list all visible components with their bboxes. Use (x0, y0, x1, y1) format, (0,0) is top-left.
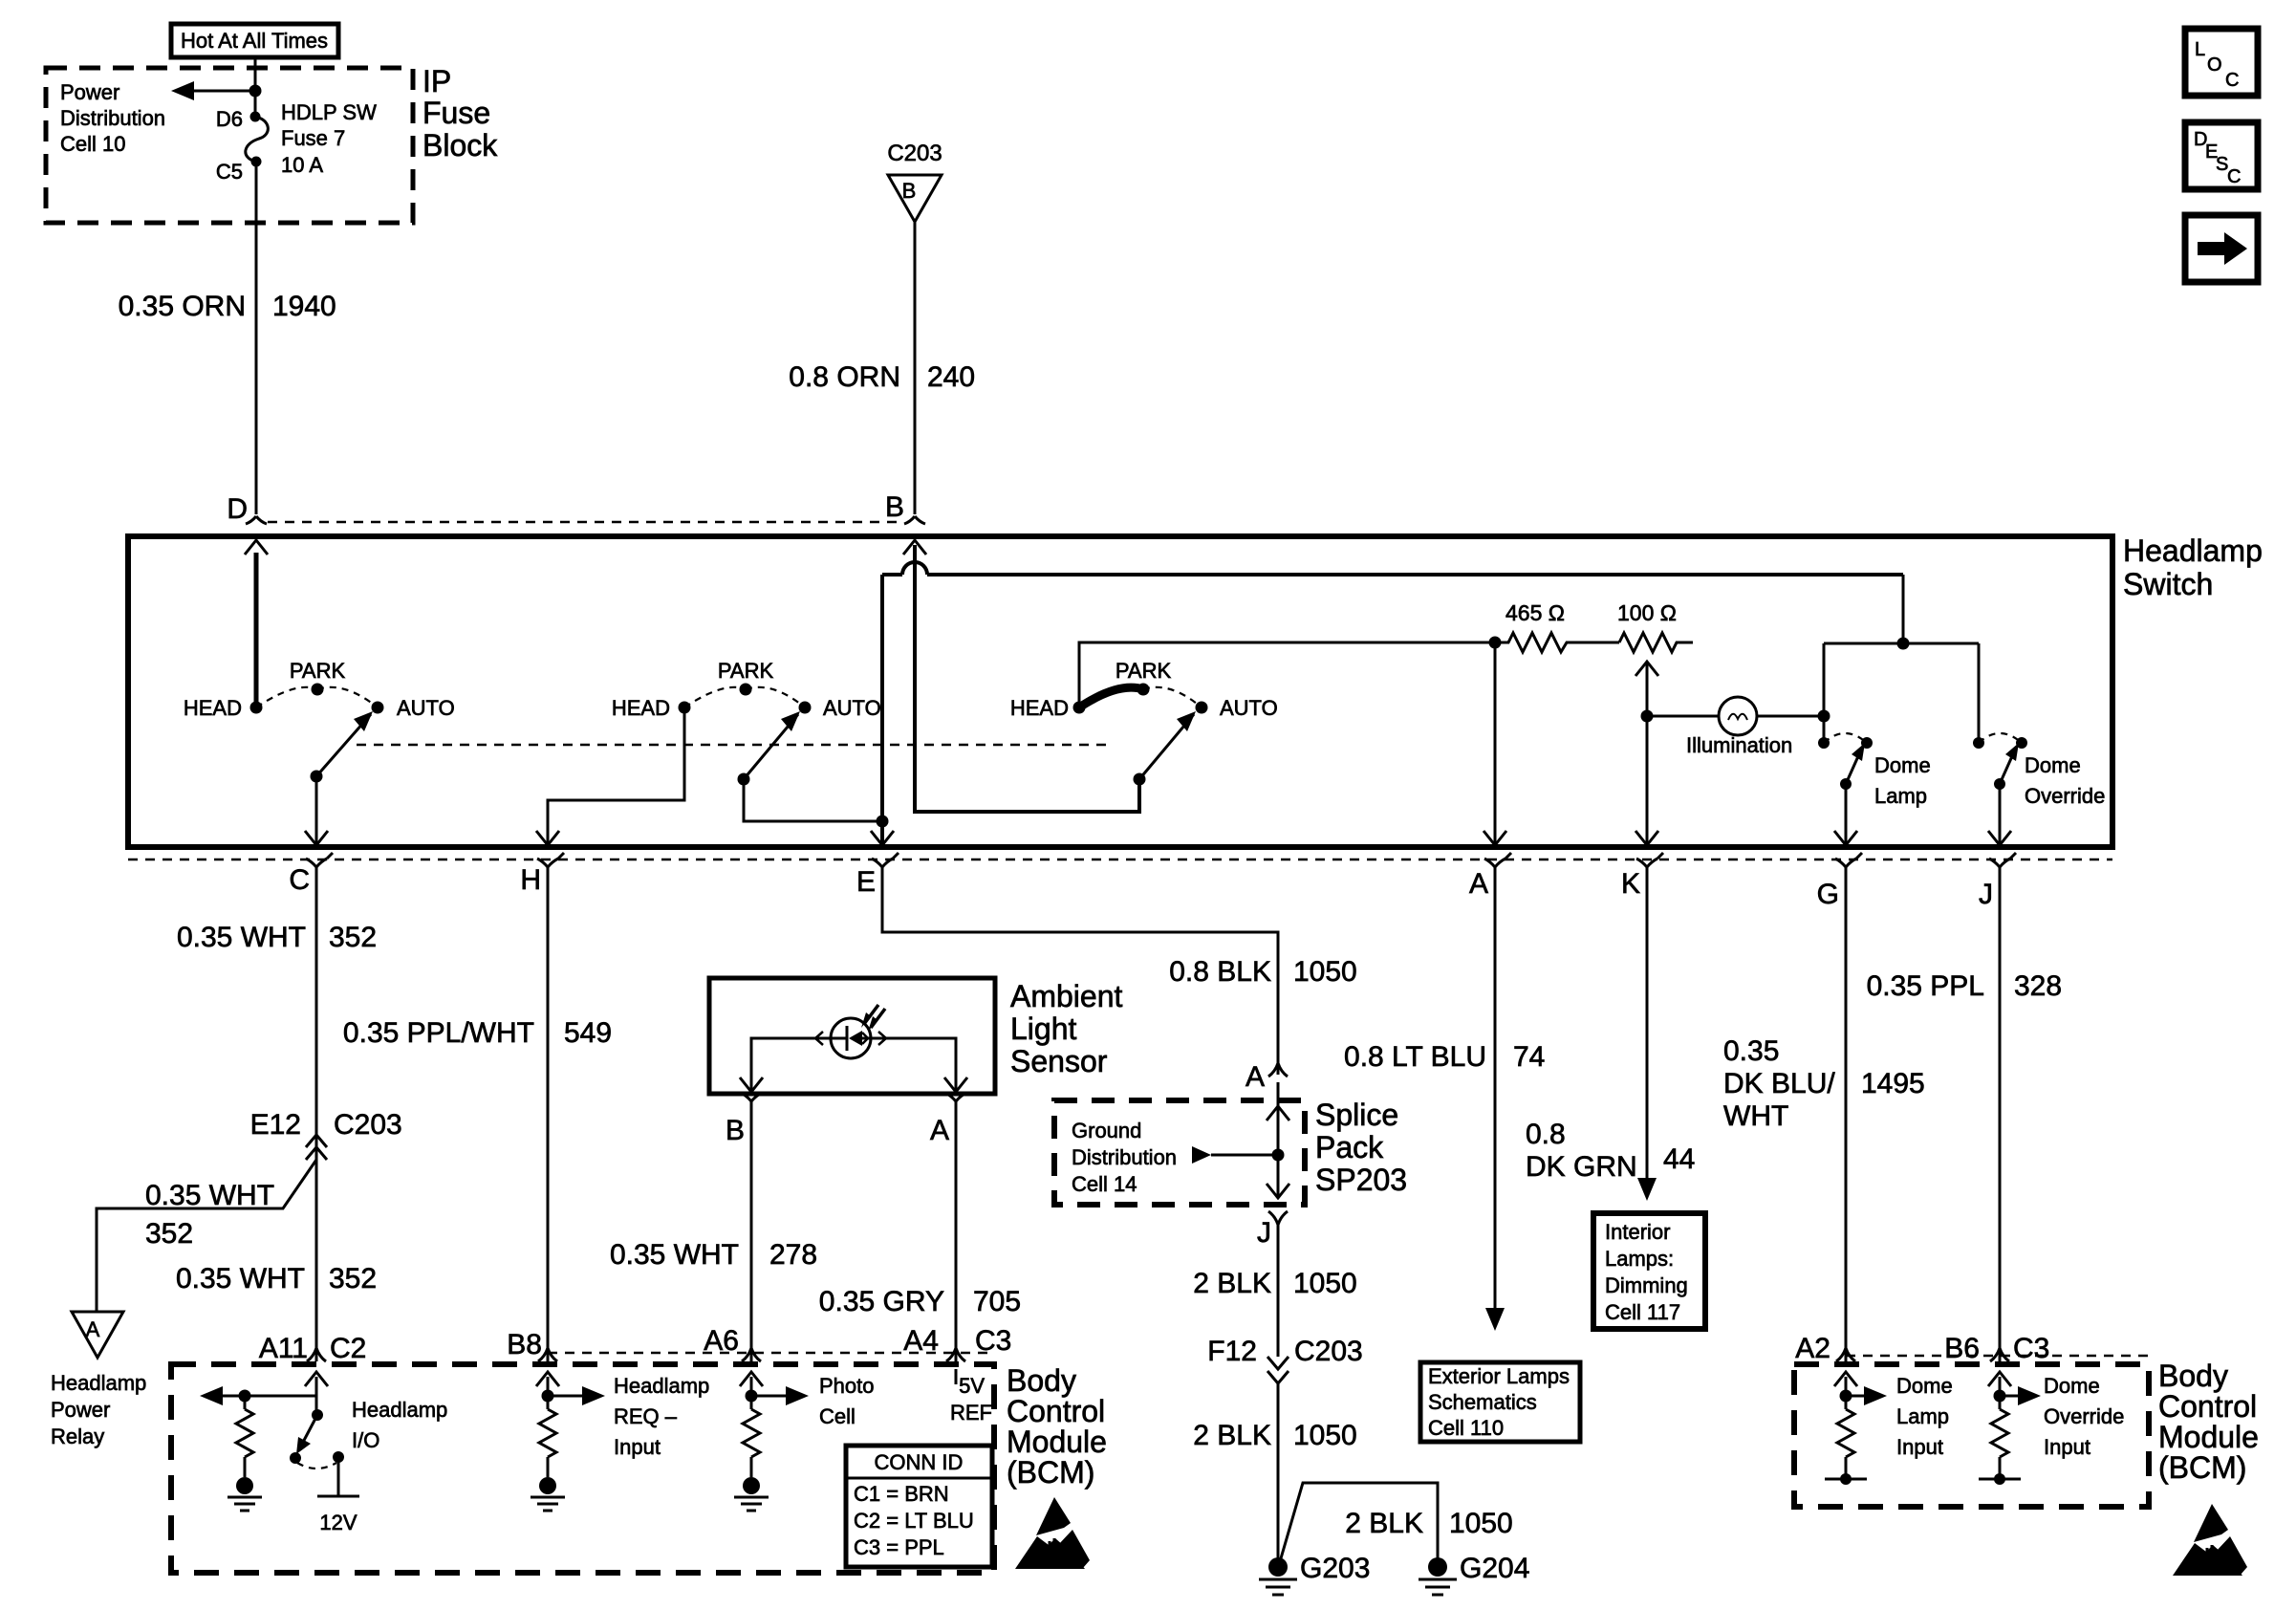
svg-text:Light: Light (1010, 1012, 1077, 1046)
svg-text:Cell 117: Cell 117 (1605, 1300, 1680, 1324)
sensor pin A connector (945, 1093, 966, 1101)
svg-text:B: B (726, 1115, 745, 1146)
svg-text:100 Ω: 100 Ω (1617, 600, 1677, 625)
svg-text:Dimming: Dimming (1605, 1273, 1688, 1297)
pin B8 connector into BCM (538, 1348, 557, 1361)
svg-text:AUTO: AUTO (397, 696, 455, 720)
svg-text:Pack: Pack (1315, 1130, 1384, 1164)
pin A11 connector into BCM (307, 1348, 326, 1361)
svg-text:HDLP SW: HDLP SW (281, 100, 377, 124)
junction node resistor feed (1489, 637, 1502, 649)
Power Distribution Cell 10 label (60, 80, 165, 156)
svg-text:C203: C203 (887, 141, 942, 166)
pin J connector (1989, 853, 2016, 867)
wire: branch to headlamp power relay (97, 1160, 316, 1312)
Hot At All Times box (171, 24, 338, 57)
svg-text:Power: Power (51, 1398, 110, 1422)
pin C connector (306, 853, 333, 867)
wire: junction down to pin A (1484, 642, 1506, 845)
label 0.8 LT BLU 74 (1344, 1041, 1545, 1073)
wire: photocell right to pin A (871, 1038, 967, 1092)
svg-text:Input: Input (2044, 1435, 2090, 1459)
switch 1 dashed position arc (256, 687, 378, 707)
headlamp REQ input circuit (531, 1372, 605, 1511)
svg-text:Ambient: Ambient (1010, 979, 1123, 1013)
svg-text:2 BLK: 2 BLK (1193, 1268, 1271, 1299)
svg-text:705: 705 (973, 1286, 1021, 1317)
wire: switch 1 arm to pin C (305, 776, 328, 845)
wire: hot feed into fuse block (254, 57, 257, 116)
svg-text:C: C (2225, 70, 2239, 91)
Splice Pack SP203 label (1315, 1098, 1407, 1197)
wire: A11 internal with up arrow (305, 1372, 328, 1415)
switch 1 labels (184, 659, 455, 720)
svg-text:Distribution: Distribution (60, 106, 165, 130)
headlamp REQ input label (614, 1374, 709, 1459)
svg-text:Override: Override (2044, 1404, 2124, 1428)
svg-text:0.35 WHT: 0.35 WHT (610, 1239, 739, 1271)
svg-text:A: A (930, 1115, 949, 1146)
svg-text:B: B (885, 491, 904, 523)
BCM left dashed box (171, 1364, 994, 1573)
svg-text:Input: Input (614, 1435, 661, 1459)
label 0.35 WHT 352 upper (177, 922, 377, 953)
svg-text:Dome: Dome (1874, 753, 1931, 777)
wire: sensor B to BCM A6 (750, 1101, 753, 1361)
pin A6 connector into BCM (742, 1348, 761, 1361)
dashed connector line under headlamp switch (128, 859, 2112, 861)
label 2 BLK 1050 (1193, 1268, 1356, 1299)
svg-text:J: J (1979, 879, 1993, 910)
wire: fuse output down to headlamp switch pin D (255, 162, 258, 514)
ground G203 (1259, 1553, 1370, 1595)
sensor pin B connector (741, 1093, 762, 1101)
svg-text:0.35 WHT: 0.35 WHT (177, 922, 306, 953)
forward arrow box (2185, 215, 2258, 282)
label 0.35 DK BLU/WHT 1495 (1723, 1035, 1925, 1132)
svg-text:A: A (1469, 868, 1488, 900)
splice pin J connector (1268, 1211, 1288, 1225)
Exterior Lamps Schematics Cell 110 box (1420, 1362, 1580, 1442)
ground at headlamp I/O resistor (227, 1477, 262, 1511)
inline connector F12 C203 (1207, 1336, 1362, 1383)
branch labels 0.35 WHT 352 (145, 1180, 274, 1250)
svg-text:1050: 1050 (1449, 1508, 1513, 1539)
switch 2 contacts (679, 684, 812, 714)
svg-text:0.8: 0.8 (1526, 1119, 1566, 1150)
Body Control Module (BCM) label right (2158, 1359, 2259, 1485)
svg-text:HEAD: HEAD (612, 696, 670, 720)
svg-text:HEAD: HEAD (184, 696, 242, 720)
wire: pin K wiper with up arrow (1635, 662, 1658, 845)
switch 1 arm (311, 711, 374, 783)
svg-text:C: C (2227, 166, 2241, 187)
dome override switch (1973, 733, 2027, 845)
svg-text:D: D (227, 493, 248, 525)
svg-text:0.8 LT BLU: 0.8 LT BLU (1344, 1041, 1486, 1073)
switch 2 arm (738, 711, 801, 786)
DESC box (2185, 122, 2258, 189)
svg-text:352: 352 (329, 922, 377, 953)
svg-text:E: E (856, 866, 876, 898)
svg-text:Illumination: Illumination (1686, 733, 1792, 757)
pin A4 connector into BCM (946, 1348, 965, 1361)
svg-text:0.35: 0.35 (1723, 1035, 1779, 1067)
wire: pin E to splice pack (882, 867, 1278, 1075)
svg-text:Relay: Relay (51, 1425, 104, 1448)
ESD symbol right BCM (2173, 1504, 2247, 1576)
svg-text:0.8 BLK: 0.8 BLK (1169, 956, 1271, 988)
label 0.8 BLK 1050 (1169, 956, 1357, 988)
svg-text:C3: C3 (2013, 1333, 2049, 1364)
label 0.35 WHT 278 (610, 1239, 817, 1271)
pin K connector (1636, 853, 1663, 867)
svg-text:Module: Module (1007, 1425, 1107, 1459)
dashed connector line at BCM left top (548, 1352, 994, 1355)
connector C203 triangle B (887, 141, 942, 222)
svg-text:IP: IP (422, 64, 451, 98)
wire: E feed vertical and pin E (871, 575, 894, 845)
pin A4 C3 labels (903, 1325, 1011, 1357)
svg-text:J: J (1257, 1217, 1271, 1249)
pin A connector (1484, 853, 1511, 867)
svg-text:Distribution: Distribution (1072, 1145, 1177, 1169)
wire: switch 3 HEAD to resistor feed (1079, 642, 1495, 707)
wire: C203 B down to headlamp switch pin B (914, 222, 917, 514)
svg-text:CONN ID: CONN ID (875, 1450, 964, 1474)
switch 3 dashed position arc (1143, 687, 1202, 707)
svg-text:AUTO: AUTO (823, 696, 881, 720)
dashed gang line (357, 744, 1107, 747)
svg-text:Control: Control (1007, 1394, 1105, 1428)
switch 3 thick HEAD-PARK arc (1079, 687, 1143, 707)
svg-text:Headlamp: Headlamp (2123, 533, 2263, 568)
svg-text:10 A: 10 A (281, 153, 323, 177)
pin D connector (246, 516, 267, 524)
svg-text:F12: F12 (1207, 1336, 1257, 1367)
svg-text:44: 44 (1663, 1143, 1695, 1175)
svg-text:C2 = LT BLU: C2 = LT BLU (854, 1509, 974, 1533)
wire: pin B feed into switch 3 arm (903, 540, 1139, 812)
svg-text:O: O (2207, 54, 2222, 76)
svg-text:1495: 1495 (1861, 1068, 1925, 1099)
wire: switch 2 HEAD contact to pin H (536, 707, 684, 845)
svg-text:Body: Body (1007, 1363, 1076, 1398)
dashed connector line at BCM right top (1846, 1355, 2149, 1358)
wire: sensor A to BCM A4 (955, 1101, 958, 1361)
dome lamp switch (1818, 733, 1873, 845)
svg-text:C203: C203 (334, 1109, 402, 1141)
dome override label (2025, 753, 2105, 808)
svg-text:DK GRN: DK GRN (1526, 1151, 1637, 1183)
svg-text:328: 328 (2014, 970, 2062, 1002)
svg-text:C203: C203 (1294, 1336, 1363, 1367)
svg-text:240: 240 (927, 361, 975, 393)
photocell symbol (815, 1005, 886, 1058)
svg-text:352: 352 (329, 1263, 377, 1295)
dome lamp label (1874, 753, 1931, 808)
switch 1 contacts (250, 684, 384, 714)
svg-text:C3 = PPL: C3 = PPL (854, 1535, 944, 1559)
svg-text:Lamp: Lamp (1874, 784, 1927, 808)
wire: pin C down to BCM A11 (315, 867, 318, 1361)
label 0.8 DK GRN 44 (1526, 1119, 1695, 1183)
svg-text:Input: Input (1896, 1435, 1943, 1459)
svg-text:0.35 WHT: 0.35 WHT (145, 1180, 274, 1211)
svg-text:Cell 10: Cell 10 (60, 132, 125, 156)
inline connector E12 C203 on C wire (250, 1109, 402, 1160)
resistor 465 ohm (1495, 600, 1619, 652)
svg-text:WHT: WHT (1723, 1100, 1788, 1132)
svg-text:0.35 PPL/WHT: 0.35 PPL/WHT (343, 1017, 534, 1049)
CONN ID table (846, 1446, 992, 1567)
label 2 BLK 1050 for G204 (1345, 1508, 1512, 1539)
svg-text:Fuse: Fuse (422, 96, 490, 130)
svg-text:Fuse 7: Fuse 7 (281, 126, 345, 150)
switch 2 dashed position arc (684, 687, 805, 707)
svg-text:(BCM): (BCM) (1007, 1455, 1094, 1490)
svg-text:Hot At All Times: Hot At All Times (181, 29, 328, 53)
wire: G204 branch (1281, 1483, 1438, 1558)
svg-text:Cell 14: Cell 14 (1072, 1172, 1137, 1196)
svg-text:HEAD: HEAD (1010, 696, 1069, 720)
wire: photocell left to pin B (740, 1038, 831, 1092)
svg-text:Dome: Dome (2044, 1374, 2100, 1398)
svg-text:1050: 1050 (1293, 1420, 1357, 1451)
svg-text:Power: Power (60, 80, 119, 104)
Splice Pack SP203 dashed box (1054, 1100, 1305, 1205)
svg-text:PARK: PARK (1116, 659, 1172, 683)
headlamp I/O label (352, 1398, 447, 1452)
label 0.35 WHT 352 lower (176, 1263, 377, 1295)
svg-text:B8: B8 (507, 1329, 542, 1360)
resistor 100 ohm (1617, 600, 1693, 652)
pin B6 connector into BCM (1990, 1348, 2009, 1361)
label 2 BLK 1050 lower (1193, 1420, 1356, 1451)
wire: pin A down to exterior lamps (1485, 867, 1505, 1331)
Interior Lamps Dimming Cell 117 box (1593, 1213, 1705, 1329)
dome lamp input label (1896, 1374, 1953, 1459)
photo cell label (819, 1374, 875, 1428)
Body Control Module (BCM) label left (1007, 1363, 1107, 1490)
svg-text:Schematics: Schematics (1428, 1390, 1537, 1414)
svg-text:(BCM): (BCM) (2158, 1450, 2246, 1485)
svg-text:Cell: Cell (819, 1404, 856, 1428)
5V REF label (950, 1374, 992, 1425)
svg-text:SP203: SP203 (1315, 1163, 1407, 1197)
svg-text:C2: C2 (330, 1333, 366, 1364)
svg-text:A: A (1245, 1061, 1265, 1093)
svg-text:L: L (2195, 39, 2205, 60)
svg-text:REQ –: REQ – (614, 1404, 678, 1428)
fuse HDLP SW Fuse 7 10A (246, 112, 269, 167)
wire: pin H down to BCM B8 (547, 867, 550, 1361)
svg-text:PARK: PARK (718, 659, 774, 683)
svg-text:H: H (520, 864, 541, 896)
svg-text:2 BLK: 2 BLK (1345, 1508, 1423, 1539)
svg-text:352: 352 (145, 1218, 193, 1250)
pin B connector (904, 516, 925, 524)
svg-text:C5: C5 (216, 160, 243, 184)
dashed connector line D-B (268, 521, 903, 524)
svg-text:B: B (902, 179, 917, 203)
wire label 0.8 ORN 240 (789, 361, 975, 393)
ground distribution arrow into splice (1192, 1146, 1285, 1164)
pin E connector (872, 853, 899, 867)
photo cell input circuit (734, 1372, 809, 1511)
svg-text:Block: Block (422, 128, 498, 163)
svg-text:PARK: PARK (290, 659, 346, 683)
headlamp I/O pull-up network (200, 1386, 316, 1477)
headlamp power relay label (51, 1371, 146, 1448)
splice internal wire with arrows (1267, 1082, 1289, 1198)
wire: C203 F12 down to ground G203 (1277, 1383, 1280, 1558)
svg-text:Cell 110: Cell 110 (1428, 1416, 1504, 1440)
svg-text:1050: 1050 (1293, 1268, 1357, 1299)
svg-text:Switch: Switch (2123, 567, 2213, 601)
svg-text:G: G (1817, 879, 1839, 910)
svg-text:G203: G203 (1300, 1553, 1370, 1584)
svg-text:I/O: I/O (352, 1428, 379, 1452)
svg-text:E12: E12 (250, 1109, 301, 1141)
switch 2 labels (612, 659, 881, 720)
svg-text:Headlamp: Headlamp (352, 1398, 447, 1422)
svg-text:Ground: Ground (1072, 1119, 1141, 1142)
svg-text:Splice: Splice (1315, 1098, 1398, 1132)
switch 3 contacts (1073, 684, 1208, 714)
wire: pin G down to BCM A2 (1845, 867, 1848, 1361)
svg-text:0.8 ORN: 0.8 ORN (789, 361, 900, 393)
wire: E feed horizontal with hump over B wire (882, 562, 1903, 575)
svg-text:Photo: Photo (819, 1374, 875, 1398)
svg-text:Dome: Dome (2025, 753, 2081, 777)
svg-text:1940: 1940 (272, 291, 336, 322)
svg-text:AUTO: AUTO (1220, 696, 1278, 720)
svg-text:74: 74 (1513, 1041, 1545, 1073)
svg-text:C: C (289, 864, 310, 896)
label 0.35 PPL/WHT 549 (343, 1017, 612, 1049)
svg-text:B6: B6 (1944, 1333, 1980, 1364)
svg-text:2 BLK: 2 BLK (1193, 1420, 1271, 1451)
wire: switch 2 arm to E junction (744, 779, 882, 821)
svg-text:A2: A2 (1795, 1333, 1830, 1364)
LOC box (2185, 29, 2258, 96)
svg-text:465 Ω: 465 Ω (1505, 600, 1565, 625)
svg-text:549: 549 (564, 1017, 612, 1049)
svg-text:G204: G204 (1460, 1553, 1529, 1584)
IP Fuse Block label (422, 64, 498, 163)
svg-text:Lamps:: Lamps: (1605, 1247, 1674, 1271)
svg-text:Sensor: Sensor (1010, 1044, 1108, 1078)
pin B6 C3 labels (1944, 1333, 2049, 1364)
svg-text:0.35 WHT: 0.35 WHT (176, 1263, 305, 1295)
svg-text:A: A (86, 1317, 100, 1341)
pin G connector (1835, 853, 1862, 867)
connector A triangle to headlamp power relay (72, 1312, 123, 1358)
svg-text:Exterior Lamps: Exterior Lamps (1428, 1364, 1570, 1388)
svg-text:5V: 5V (959, 1374, 985, 1398)
svg-text:Override: Override (2025, 784, 2105, 808)
Ambient Light Sensor label (1010, 979, 1123, 1078)
svg-text:Interior: Interior (1605, 1220, 1670, 1244)
svg-text:DK BLU/: DK BLU/ (1723, 1068, 1835, 1099)
wire label 0.35 ORN 1940 (119, 291, 336, 322)
svg-text:Lamp: Lamp (1896, 1404, 1949, 1428)
svg-text:0.35 ORN: 0.35 ORN (119, 291, 246, 322)
svg-text:Body: Body (2158, 1359, 2228, 1393)
Ambient Light Sensor box (709, 978, 995, 1094)
switch 3 labels (1010, 659, 1278, 720)
wire: dome feed from E line (1824, 575, 1979, 743)
svg-text:D6: D6 (216, 107, 243, 131)
ground G204 (1419, 1553, 1529, 1595)
svg-text:278: 278 (769, 1239, 817, 1271)
dome override input label (2044, 1374, 2124, 1459)
label 0.35 PPL 328 (1867, 970, 2063, 1002)
svg-text:Dome: Dome (1896, 1374, 1953, 1398)
svg-text:Headlamp: Headlamp (614, 1374, 709, 1398)
wire: splice J to C203 F12 (1277, 1222, 1280, 1357)
wire: pin K down to interior lamps (1637, 867, 1657, 1201)
IP Fuse Block dashed box (46, 68, 413, 223)
svg-text:0.35 GRY: 0.35 GRY (819, 1286, 944, 1317)
svg-text:K: K (1621, 868, 1640, 900)
headlamp I/O switch (290, 1409, 359, 1534)
svg-text:Headlamp: Headlamp (51, 1371, 146, 1395)
wire: pin D feed up arrow inside switch (245, 540, 268, 707)
svg-text:1050: 1050 (1293, 956, 1357, 988)
svg-text:0.35 PPL: 0.35 PPL (1867, 970, 1984, 1002)
wire: pin J down to BCM B6 (1999, 867, 2002, 1361)
BCM right dashed box (1794, 1364, 2149, 1507)
wire: power distribution branch with arrow (171, 81, 262, 100)
svg-text:A11: A11 (259, 1333, 308, 1364)
Ground Distribution Cell 14 label (1072, 1119, 1177, 1196)
svg-text:C1 = BRN: C1 = BRN (854, 1482, 949, 1506)
label 0.35 GRY 705 (819, 1286, 1021, 1317)
dome override input circuit (1979, 1372, 2041, 1485)
svg-text:Control: Control (2158, 1389, 2257, 1424)
ESD symbol left BCM (1015, 1497, 1090, 1569)
splice pin A connector (1268, 1063, 1288, 1077)
fuse value label (281, 100, 377, 177)
svg-text:REF: REF (950, 1401, 992, 1425)
dome lamp input circuit (1825, 1372, 1887, 1485)
svg-text:12V: 12V (319, 1511, 357, 1534)
switch 3 arm (1134, 711, 1197, 786)
pin A11 C2 labels (259, 1333, 367, 1364)
svg-text:Module: Module (2158, 1420, 2259, 1454)
illumination lamp (1647, 697, 1830, 757)
pin A2 connector into BCM (1836, 1348, 1855, 1361)
Headlamp Switch label (2123, 533, 2263, 601)
Headlamp Switch box (128, 536, 2112, 847)
pin H connector (537, 853, 564, 867)
